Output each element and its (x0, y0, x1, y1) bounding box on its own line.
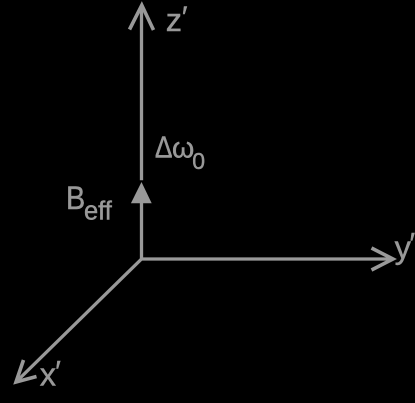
B_eff vector arrowhead (filled triangle on z' axis) (131, 182, 152, 203)
x' axis arrowhead (16, 360, 37, 382)
svg-text:ω: ω (172, 133, 194, 165)
y' axis (142, 257, 392, 260)
label y' (395, 228, 415, 266)
label B of B_eff (66, 180, 85, 216)
svg-text:0: 0 (192, 148, 205, 174)
svg-text:′: ′ (55, 355, 61, 388)
svg-text:′: ′ (182, 1, 188, 34)
x' axis (16, 259, 142, 382)
z' axis arrowhead (130, 5, 154, 30)
y' axis arrowhead (372, 248, 394, 270)
svg-text:Δ: Δ (155, 130, 173, 165)
svg-text:eff: eff (84, 197, 113, 225)
svg-text:x: x (40, 357, 56, 393)
svg-text:B: B (66, 180, 85, 216)
label subscript 0 of Delta-omega-0 (192, 148, 205, 174)
svg-text:z: z (166, 2, 182, 38)
label omega of Delta-omega-0 (172, 133, 194, 165)
svg-text:′: ′ (410, 228, 415, 261)
label Delta of Delta-omega-0 (155, 130, 173, 165)
B_eff vector shaft (origin up to arrowhead base) (140, 203, 143, 259)
label x' (40, 355, 62, 392)
label z' (166, 1, 188, 38)
z' axis (upper segment, above B_eff arrowhead) (140, 7, 143, 180)
label subscript eff of B_eff (84, 197, 113, 225)
